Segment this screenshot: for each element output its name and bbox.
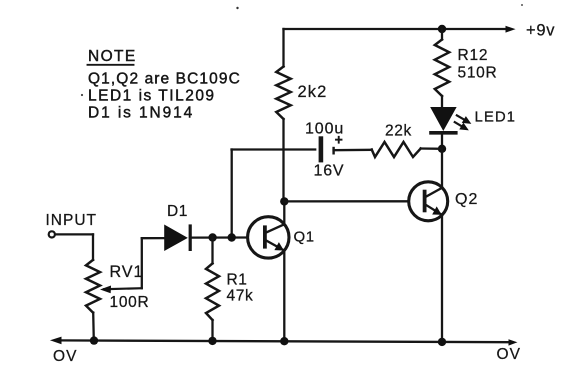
svg-text:+9v: +9v <box>526 21 555 39</box>
svg-text:47k: 47k <box>227 288 254 305</box>
svg-text:RV1: RV1 <box>110 263 144 281</box>
svg-text:INPUT: INPUT <box>46 212 98 229</box>
svg-text:2k2: 2k2 <box>298 83 328 101</box>
svg-text:R1: R1 <box>227 271 248 288</box>
svg-text:+: + <box>335 133 343 149</box>
svg-text:16V: 16V <box>314 163 345 180</box>
svg-text:510R: 510R <box>458 64 498 81</box>
svg-text:22k: 22k <box>385 123 412 140</box>
svg-text:Q2: Q2 <box>455 191 478 208</box>
svg-text:LED1: LED1 <box>475 109 517 126</box>
svg-text:R12: R12 <box>458 47 489 64</box>
svg-text:D1 is 1N914: D1 is 1N914 <box>88 105 194 122</box>
svg-text:OV: OV <box>497 346 522 363</box>
svg-text:D1: D1 <box>167 203 188 220</box>
svg-text:NOTE: NOTE <box>88 48 137 65</box>
svg-text:LED1 is TIL209: LED1 is TIL209 <box>88 88 216 105</box>
svg-text:Q1,Q2 are BC109C: Q1,Q2 are BC109C <box>88 71 241 88</box>
svg-text:OV: OV <box>53 348 78 365</box>
svg-text:100R: 100R <box>110 294 150 311</box>
svg-text:Q1: Q1 <box>294 229 315 246</box>
